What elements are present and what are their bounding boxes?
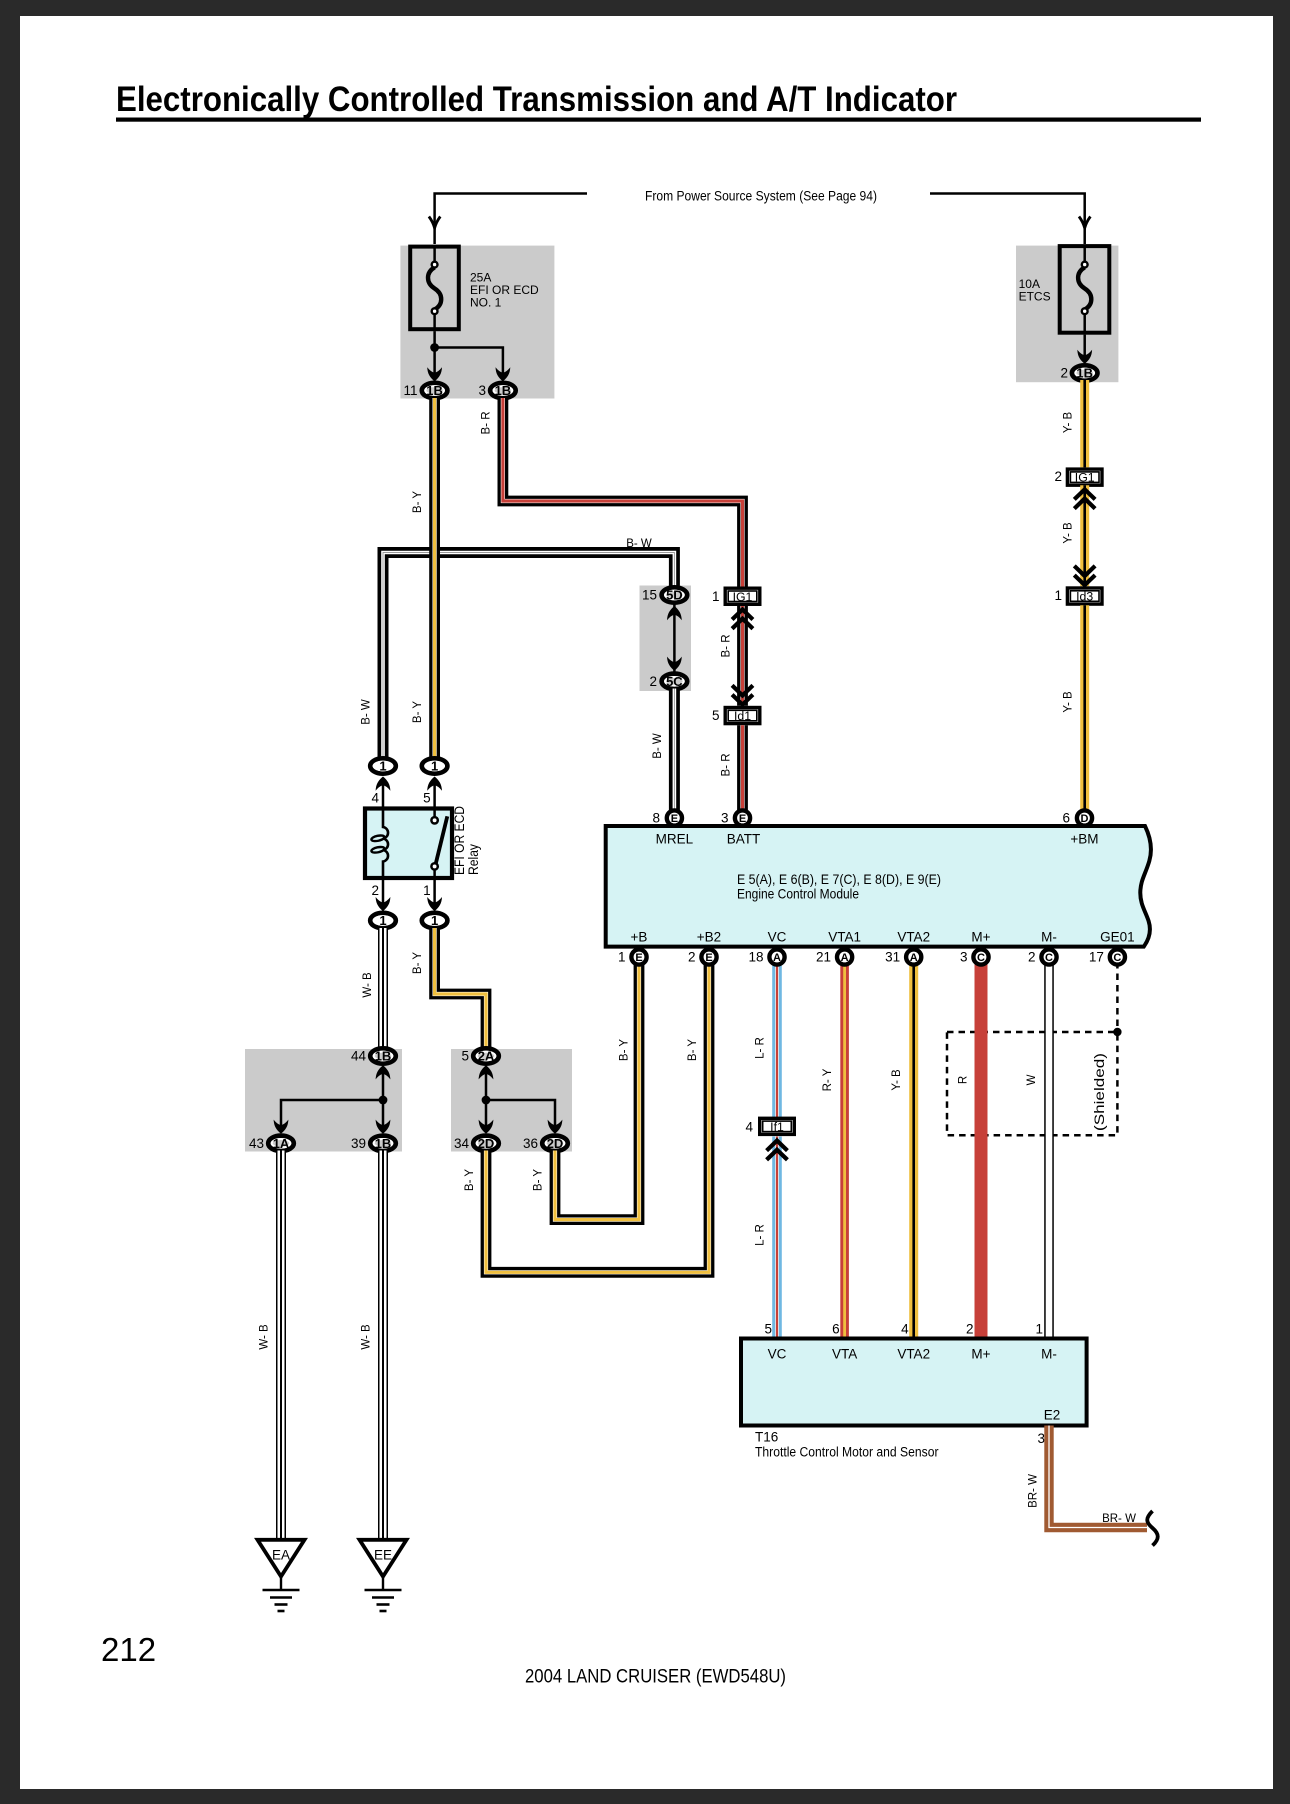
svg-text:M-: M- xyxy=(1041,1347,1057,1362)
shielded cable boundary (GE01) xyxy=(947,962,1122,1135)
connector 43 1A xyxy=(249,1136,294,1151)
svg-text:B- R: B- R xyxy=(720,754,732,777)
junction connector block 5D/5C xyxy=(640,586,692,692)
svg-text:B- Y: B- Y xyxy=(533,1169,545,1191)
svg-text:2: 2 xyxy=(371,883,379,898)
svg-text:5: 5 xyxy=(461,1049,469,1064)
svg-text:E: E xyxy=(635,952,642,964)
svg-text:1: 1 xyxy=(431,913,438,928)
connector 1 (relay pin1 bottom) xyxy=(422,913,448,928)
svg-text:44: 44 xyxy=(351,1049,367,1064)
svg-text:Y- B: Y- B xyxy=(1063,412,1075,434)
svg-text:B- R: B- R xyxy=(720,635,732,658)
svg-text:T16: T16 xyxy=(755,1430,778,1445)
relay pin 2 lead xyxy=(371,878,390,911)
wire W: ECM M- to T16 M- xyxy=(1026,962,1049,1340)
svg-text:VTA: VTA xyxy=(832,1347,857,1362)
svg-text:B- Y: B- Y xyxy=(687,1039,699,1061)
pin 3 C M+ xyxy=(960,949,989,964)
svg-text:W- B: W- B xyxy=(259,1324,271,1350)
svg-text:Y- B: Y- B xyxy=(1063,691,1075,713)
connector 5 Id1 xyxy=(712,708,760,724)
op ECM: Engine Control Module E5-E9 xyxy=(606,826,1151,947)
svg-text:1: 1 xyxy=(1035,1322,1043,1337)
relay EFI OR ECD xyxy=(365,806,481,878)
svg-text:E 5(A), E 6(B), E 7(C), E 8(D): E 5(A), E 6(B), E 7(C), E 8(D), E 9(E) xyxy=(737,871,941,887)
pin 31 A VTA2 xyxy=(885,949,921,964)
svg-text:R- Y: R- Y xyxy=(822,1068,834,1091)
svg-text:If1: If1 xyxy=(770,1120,784,1134)
connector 36 2D xyxy=(523,1136,568,1151)
node: From Power Source System label xyxy=(645,189,877,204)
svg-text:1: 1 xyxy=(423,883,431,898)
svg-text:BR- W: BR- W xyxy=(1028,1474,1040,1508)
svg-text:36: 36 xyxy=(523,1136,538,1151)
wire W-B: relay pin2 to 44 1B xyxy=(362,928,383,1048)
svg-text:2: 2 xyxy=(688,950,696,965)
wire Y-B: ECM VTA2 to T16 VTA2 xyxy=(891,962,914,1340)
pin 3 E BATT xyxy=(721,810,750,825)
title: Electronically Controlled Transmission and A/T Indicator xyxy=(116,80,1201,122)
junction connector block 1B/1A xyxy=(245,1049,402,1152)
svg-text:EE: EE xyxy=(374,1548,392,1563)
svg-text:GE01: GE01 xyxy=(1100,930,1135,945)
connector 1 (relay pin2 bottom) xyxy=(370,913,396,928)
wire: 44 1B junction to 43 1A and 39 1B xyxy=(274,1065,391,1134)
svg-text:(Shielded): (Shielded) xyxy=(1092,1053,1107,1131)
svg-text:18: 18 xyxy=(748,950,763,965)
svg-text:1B: 1B xyxy=(375,1049,392,1064)
svg-text:C: C xyxy=(977,952,985,964)
svg-text:1A: 1A xyxy=(273,1136,290,1151)
connector 2 1B (ETCS) xyxy=(1060,365,1097,380)
svg-text:E: E xyxy=(705,952,712,964)
svg-text:MREL: MREL xyxy=(656,832,694,847)
svg-text:5: 5 xyxy=(423,791,431,806)
svg-text:8: 8 xyxy=(652,811,660,826)
connector 1 (relay pin4 top) xyxy=(370,758,396,773)
svg-text:15: 15 xyxy=(642,588,657,603)
wire L-R: If1 to T16 VC xyxy=(755,1137,788,1341)
connector 2 IG1 xyxy=(1054,469,1102,485)
svg-text:5: 5 xyxy=(712,708,720,723)
svg-text:VC: VC xyxy=(768,1347,787,1362)
svg-text:Y- B: Y- B xyxy=(891,1069,903,1091)
svg-text:W: W xyxy=(1026,1074,1038,1085)
svg-text:1B: 1B xyxy=(426,383,443,398)
svg-text:W- B: W- B xyxy=(361,1324,373,1350)
wire BR-W: T16 E2 pin3 tail xyxy=(1028,1426,1158,1546)
wire Y-B: 1B to IG1 xyxy=(1063,380,1085,467)
svg-text:2A: 2A xyxy=(478,1049,495,1064)
svg-text:B- Y: B- Y xyxy=(412,491,424,513)
svg-text:C: C xyxy=(1045,952,1053,964)
wire: 10A fuse output xyxy=(1077,335,1092,364)
svg-text:2D: 2D xyxy=(478,1136,495,1151)
pin 21 A VTA1 xyxy=(816,949,852,964)
svg-text:1: 1 xyxy=(712,589,720,604)
svg-text:Throttle Control Motor and Sen: Throttle Control Motor and Sensor xyxy=(755,1445,939,1460)
wire: 5 2A junction to 34 2D and 36 2D xyxy=(479,1065,563,1134)
svg-text:D: D xyxy=(1081,813,1089,825)
svg-text:3: 3 xyxy=(960,950,968,965)
svg-text:BATT: BATT xyxy=(727,832,761,847)
junction connector block 2A/2D xyxy=(451,1049,572,1152)
connector 34 2D xyxy=(454,1136,499,1151)
wire R-Y: ECM VTA1 to T16 VTA xyxy=(822,962,845,1340)
svg-text:5: 5 xyxy=(764,1322,772,1337)
relay pin 4 lead xyxy=(371,777,390,809)
svg-text:B- R: B- R xyxy=(480,412,492,435)
svg-text:B- Y: B- Y xyxy=(464,1169,476,1191)
svg-text:34: 34 xyxy=(454,1136,470,1151)
svg-text:4: 4 xyxy=(371,791,379,806)
wire B-Y: relay pin1 to 5 2A xyxy=(412,928,486,1048)
svg-text:E: E xyxy=(671,813,678,825)
svg-text:L- R: L- R xyxy=(755,1224,767,1246)
svg-text:EFI OR ECD: EFI OR ECD xyxy=(452,806,467,875)
footer: 2004 LAND CRUISER (EWD548U) xyxy=(525,1667,786,1688)
svg-text:4: 4 xyxy=(901,1322,909,1337)
svg-text:1: 1 xyxy=(431,759,438,774)
wire R: ECM M+ to T16 M+ xyxy=(958,962,982,1340)
svg-text:5C: 5C xyxy=(666,674,683,689)
svg-text:21: 21 xyxy=(816,950,831,965)
wire: 25A fuse output with junction xyxy=(427,331,510,381)
svg-text:3: 3 xyxy=(478,383,486,398)
wire Y-B: Id3 to ECM +BM xyxy=(1063,605,1085,812)
pin 17 C GE01 xyxy=(1089,949,1125,964)
svg-text:+BM: +BM xyxy=(1070,832,1098,847)
connector 11 1B xyxy=(403,383,447,398)
svg-text:B- W: B- W xyxy=(626,538,652,550)
wire W-B: 39 1B to ground EE xyxy=(361,1151,384,1540)
svg-text:2: 2 xyxy=(1060,366,1068,381)
svg-text:+B2: +B2 xyxy=(697,930,721,945)
wire B-W: relay pin4 to 5D (upper run) xyxy=(361,538,675,758)
connector 3 1B xyxy=(478,383,515,398)
svg-text:2: 2 xyxy=(966,1322,974,1337)
svg-text:39: 39 xyxy=(351,1136,366,1151)
svg-text:1B: 1B xyxy=(495,383,512,398)
connector 4 If1 xyxy=(745,1118,794,1134)
connector 5 2A xyxy=(461,1048,498,1063)
svg-text:B- Y: B- Y xyxy=(619,1039,631,1061)
wire: power feed to 10A fuse xyxy=(930,194,1090,245)
svg-text:2: 2 xyxy=(649,674,657,689)
svg-text:E2: E2 xyxy=(1044,1408,1061,1423)
svg-text:5D: 5D xyxy=(666,588,683,603)
svg-text:2D: 2D xyxy=(547,1136,564,1151)
svg-text:NO. 1: NO. 1 xyxy=(470,296,502,310)
svg-text:Engine Control Module: Engine Control Module xyxy=(737,886,859,902)
wire B-Y: 11 1B to relay pin5 xyxy=(412,398,435,758)
wire W-B: 43 1A to ground EA xyxy=(259,1151,282,1540)
svg-text:VTA1: VTA1 xyxy=(828,930,861,945)
pin 18 A VC xyxy=(748,949,784,964)
connector 15 5D xyxy=(642,587,687,602)
connector 1 IG1 xyxy=(712,588,760,604)
svg-text:EA: EA xyxy=(272,1548,290,1563)
relay pin 1 lead xyxy=(423,878,442,911)
svg-text:B- Y: B- Y xyxy=(412,952,424,974)
pin 8 E MREL xyxy=(652,810,682,825)
wire: power feed to 25A fuse xyxy=(429,194,587,245)
pin 6 D +BM xyxy=(1062,810,1092,825)
svg-text:11: 11 xyxy=(403,383,417,398)
svg-text:ETCS: ETCS xyxy=(1019,290,1051,304)
svg-text:6: 6 xyxy=(1062,811,1070,826)
connector 2 5C xyxy=(649,674,687,689)
pin 2 C M- xyxy=(1028,949,1057,964)
svg-text:B- W: B- W xyxy=(652,733,664,759)
svg-text:3: 3 xyxy=(721,811,729,826)
svg-text:Y- B: Y- B xyxy=(1063,522,1075,544)
svg-text:W- B: W- B xyxy=(362,972,374,998)
wire B-Y: 36 2D to ECM +B xyxy=(533,962,640,1220)
svg-text:43: 43 xyxy=(249,1136,264,1151)
svg-text:A: A xyxy=(773,952,781,964)
svg-text:VTA2: VTA2 xyxy=(897,930,930,945)
svg-text:VTA2: VTA2 xyxy=(897,1347,930,1362)
svg-text:From Power Source System (See: From Power Source System (See Page 94) xyxy=(645,189,877,204)
wire B-R: 3 1B to IG1 xyxy=(480,398,742,587)
connector 1 Id3 xyxy=(1054,588,1102,604)
page number 212 xyxy=(101,1631,156,1668)
svg-text:B- W: B- W xyxy=(361,699,373,725)
relay pin 5 lead xyxy=(423,777,442,809)
wire B-Y: 34 2D to ECM +B2 xyxy=(464,962,709,1272)
svg-text:3: 3 xyxy=(1037,1431,1045,1446)
fuse 25A EFI OR ECD NO. 1 xyxy=(400,246,554,399)
svg-text:2004 LAND CRUISER (EWD548U): 2004 LAND CRUISER (EWD548U) xyxy=(525,1667,786,1688)
svg-text:IG1: IG1 xyxy=(733,590,753,604)
ground EE xyxy=(360,1540,407,1611)
connector 44 1B xyxy=(351,1048,396,1063)
svg-text:31: 31 xyxy=(885,950,900,965)
svg-text:1B: 1B xyxy=(1076,366,1093,381)
svg-text:R: R xyxy=(958,1076,970,1084)
fuse 10A ETCS xyxy=(1016,246,1118,383)
svg-text:6: 6 xyxy=(832,1322,840,1337)
connector 1 (relay pin5 top) xyxy=(422,758,448,773)
svg-text:1: 1 xyxy=(1054,588,1062,603)
wire Y-B: IG1 to Id3 xyxy=(1063,485,1096,586)
connector 39 1B xyxy=(351,1136,396,1151)
svg-text:M+: M+ xyxy=(971,930,990,945)
svg-text:E: E xyxy=(739,813,746,825)
pin 1 E +B xyxy=(618,949,647,964)
svg-text:1: 1 xyxy=(379,759,386,774)
wire B-R: Id1 to ECM BATT xyxy=(720,725,742,812)
svg-text:IG1: IG1 xyxy=(1075,471,1095,485)
svg-text:4: 4 xyxy=(745,1120,753,1135)
svg-text:BR- W: BR- W xyxy=(1102,1513,1136,1525)
wire L-R: ECM VC to If1 xyxy=(755,962,778,1117)
op T16: Throttle Control Motor and Sensor xyxy=(741,1322,1087,1460)
ground EA xyxy=(258,1540,305,1611)
wire B-R: IG1 to Id1 xyxy=(720,606,753,706)
svg-text:A: A xyxy=(841,952,849,964)
svg-text:L- R: L- R xyxy=(755,1037,767,1059)
svg-text:+B: +B xyxy=(631,930,648,945)
svg-text:B- Y: B- Y xyxy=(412,701,424,723)
svg-text:1: 1 xyxy=(379,913,386,928)
pin 2 E +B2 xyxy=(688,949,717,964)
wire: 5D to 5C link xyxy=(667,604,682,673)
svg-text:2: 2 xyxy=(1028,950,1036,965)
svg-text:212: 212 xyxy=(101,1631,156,1668)
svg-text:Id1: Id1 xyxy=(734,709,751,723)
svg-text:17: 17 xyxy=(1089,950,1104,965)
wire B-W: 5C to ECM MREL xyxy=(652,689,674,813)
svg-text:C: C xyxy=(1113,952,1121,964)
svg-text:1: 1 xyxy=(618,950,626,965)
svg-text:Electronically Controlled Tran: Electronically Controlled Transmission a… xyxy=(116,80,957,119)
svg-text:Id3: Id3 xyxy=(1076,590,1093,604)
svg-text:M+: M+ xyxy=(971,1347,990,1362)
svg-text:M-: M- xyxy=(1041,930,1057,945)
svg-text:2: 2 xyxy=(1054,469,1062,484)
svg-text:Relay: Relay xyxy=(466,844,481,875)
svg-text:VC: VC xyxy=(768,930,787,945)
svg-text:1B: 1B xyxy=(375,1136,392,1151)
svg-text:A: A xyxy=(910,952,918,964)
